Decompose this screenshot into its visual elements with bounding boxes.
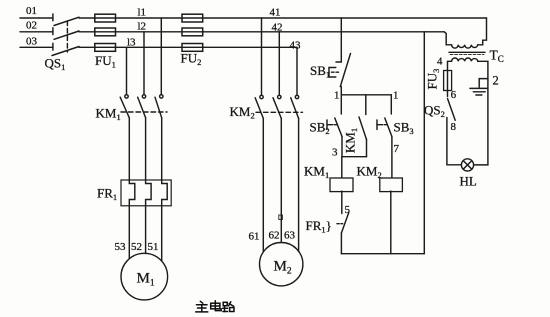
switch QS1 pole 1	[53, 14, 79, 26]
wire line2 to transformer primary left	[444, 32, 451, 45]
char 主	[196, 301, 208, 312]
transformer TC secondary winding	[452, 58, 478, 61]
contactor KM1 main contact 1	[120, 95, 129, 180]
wire line1 to transformer primary right	[478, 18, 487, 45]
contactor KM2 main contact 2	[273, 95, 281, 242]
svg-text:03: 03	[26, 36, 38, 48]
svg-text:l1: l1	[138, 6, 147, 18]
wire drop line1 to KM2	[261, 18, 263, 95]
svg-text:l3: l3	[127, 37, 136, 49]
wire L2 bus after QS1	[79, 31, 444, 33]
fuse FU1 pole 2	[95, 28, 116, 36]
node 3 wire	[342, 156, 367, 158]
wire node3 to KM1 coil	[341, 157, 343, 178]
svg-text:HL: HL	[460, 174, 477, 189]
switch QS2 blade	[448, 99, 456, 121]
coil KM2	[380, 178, 403, 192]
svg-text:4: 4	[437, 56, 443, 68]
fuse FU2 pole 2	[182, 28, 203, 36]
right control rail wire	[423, 32, 425, 254]
wire FR1 to M1 phase 3	[161, 206, 163, 261]
svg-text:7: 7	[394, 143, 400, 155]
wire KM2 coil to bottom rail	[390, 191, 392, 254]
svg-text:61: 61	[249, 231, 260, 243]
wire L3 bus segment left	[20, 46, 53, 48]
KM1 linkage dashed	[121, 111, 167, 113]
wire FR1 to M1 phase 1	[128, 206, 130, 259]
contactor KM1 main contact 3	[155, 95, 163, 180]
wire QS2 to lamp	[447, 118, 462, 165]
contact KM1 auxiliary (NO)	[359, 95, 367, 157]
ground tap wire	[479, 79, 488, 88]
ground symbol	[470, 88, 487, 95]
transformer TC primary winding	[452, 45, 478, 48]
contactor KM2 main contact 1	[255, 95, 263, 252]
pushbutton SB1 (NC stop)	[329, 54, 351, 95]
char 电	[211, 301, 222, 311]
wire drop line2 to KM2	[278, 32, 280, 96]
svg-text:l2: l2	[138, 21, 147, 33]
contact FR1 (NC thermal)	[337, 213, 349, 254]
svg-text:FR1}: FR1}	[306, 218, 332, 235]
caption 主电路 hand-drawn	[196, 301, 234, 312]
pushbutton SB2 (NO start)	[327, 95, 342, 157]
wire lamp to secondary right	[474, 61, 488, 165]
thermal relay FR1 box	[121, 180, 171, 206]
pushbutton SB3 (NO jog)	[377, 95, 392, 178]
wire secondary left to FU3	[448, 61, 452, 96]
wire L1 bus after QS1	[79, 17, 487, 19]
svg-text:43: 43	[290, 40, 302, 52]
KM2 linkage dashed	[256, 111, 303, 113]
wire L2 bus segment left	[20, 31, 53, 33]
wire drop line3 to KM1	[126, 47, 128, 95]
svg-text:42: 42	[272, 22, 283, 34]
bottom rail wire	[341, 253, 424, 255]
wire KM1 coil to FR1 contact	[341, 191, 343, 213]
svg-text:02: 02	[26, 20, 37, 32]
svg-text:51: 51	[148, 241, 159, 253]
svg-text:1: 1	[334, 90, 340, 102]
FR1 heater element 3	[162, 180, 168, 206]
FR1 heater element 2	[146, 180, 152, 206]
svg-text:41: 41	[270, 6, 281, 18]
svg-text:3: 3	[332, 147, 338, 159]
wire FR1 to M1 phase 2	[145, 206, 147, 254]
svg-text:8: 8	[451, 121, 457, 133]
fuse FU1 pole 1	[95, 14, 116, 22]
wire drop line2 to KM1	[143, 32, 145, 95]
coil KM1	[330, 178, 353, 192]
wire L3 bus after QS1	[79, 46, 297, 48]
svg-text:6: 6	[451, 89, 457, 101]
svg-text:62: 62	[269, 230, 280, 242]
svg-text:53: 53	[115, 241, 127, 253]
wire L1 bus segment left	[20, 17, 53, 19]
fuse FU1 pole 3	[95, 44, 116, 52]
char 路	[223, 302, 234, 312]
fuse FU2 pole 3	[182, 44, 203, 52]
transformer TC core	[449, 52, 485, 54]
svg-text:52: 52	[131, 241, 142, 253]
contactor KM2 main contact 3	[291, 95, 299, 251]
svg-text:1: 1	[393, 90, 399, 102]
junction speck on KM2 middle wire	[279, 215, 283, 220]
svg-text:2: 2	[493, 74, 499, 88]
svg-text:63: 63	[284, 230, 296, 242]
motor M2 circle	[260, 243, 303, 286]
fuse FU2 pole 1	[182, 14, 203, 22]
fuse FU3	[444, 71, 452, 91]
lamp HL	[461, 159, 473, 171]
QS1 linkage dashed	[66, 21, 68, 52]
node 1 wire	[341, 94, 391, 96]
wire SB1 branch from line 41	[340, 18, 342, 62]
wire drop line3 to KM2	[296, 47, 298, 95]
svg-text:01: 01	[26, 5, 37, 17]
motor M1 circle	[121, 253, 168, 300]
wire drop line1 to KM1	[160, 18, 162, 95]
switch QS1 pole 2	[53, 28, 79, 40]
switch QS1 pole 3	[52, 43, 79, 55]
svg-text:5: 5	[345, 204, 351, 216]
contactor KM1 main contact 2	[138, 95, 146, 180]
FR1 heater element 1	[129, 180, 135, 206]
